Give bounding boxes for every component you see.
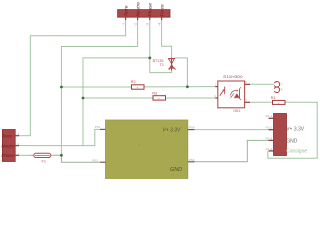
connector P2 right block [274, 114, 287, 156]
wire R1 loop to connector pin4 [268, 102, 317, 158]
op-to coupler OK1 box [218, 81, 245, 108]
wire fuse to junction and module PS2 [51, 155, 100, 162]
svg-text:+: + [158, 96, 160, 100]
svg-text:P2-3: P2-3 [266, 136, 273, 140]
svg-text:R3: R3 [152, 91, 157, 95]
opto light arrows [230, 90, 238, 98]
connector P2 pin stubs [269, 118, 274, 151]
svg-text:-4: -4 [157, 23, 161, 26]
svg-text:Neutre: Neutre [1, 144, 15, 149]
svg-text:+: + [137, 85, 139, 89]
opto triac symbol [234, 87, 241, 100]
svg-text:PS3: PS3 [189, 158, 195, 162]
wire GND module to connector [195, 140, 269, 161]
connector P2 pin labels [266, 114, 273, 151]
svg-text:-2: -2 [280, 87, 283, 91]
wire opto pin4 to R1 [250, 101, 273, 103]
wire R2 line [61, 86, 131, 88]
resistor R3 [153, 96, 166, 100]
connector X5 left block [2, 130, 15, 162]
svg-text:Phase: Phase [148, 3, 154, 17]
wire opto pin6 to pinhead [250, 83, 274, 85]
junction at R3 line [82, 97, 85, 100]
svg-text:PS1: PS1 [95, 125, 101, 129]
connector X1 top block [118, 10, 170, 18]
svg-text:-3: -3 [17, 132, 20, 136]
junction at pin3 triac [148, 57, 151, 60]
wire R3 right to opto pin2 [166, 97, 216, 99]
wire R3 line left [83, 97, 153, 99]
svg-text:R2: R2 [131, 80, 136, 84]
svg-text:OK1: OK1 [233, 109, 240, 113]
junction at R2 line [60, 86, 63, 89]
svg-text:Neutre: Neutre [136, 2, 142, 17]
pin numbers left connector [17, 132, 20, 156]
opto LED symbol [220, 87, 225, 96]
svg-text:Phase: Phase [1, 153, 14, 158]
svg-text:Terre: Terre [2, 134, 13, 139]
svg-text:V+ 3.3V: V+ 3.3V [286, 127, 305, 133]
module PS power supply block [106, 120, 188, 179]
svg-text:P2-2: P2-2 [266, 126, 273, 130]
svg-text:PS2: PS2 [92, 158, 98, 162]
svg-text:-2: -2 [133, 23, 137, 26]
fuse F1 [34, 153, 51, 157]
svg-text:R1: R1 [271, 96, 276, 100]
svg-text:P2-1: P2-1 [266, 114, 273, 118]
wire junction down to triac bottom [150, 58, 172, 73]
pinhead pin labels [280, 82, 283, 92]
wire Neutre line to module PS1 [30, 129, 100, 145]
triac T1 [168, 58, 175, 71]
resistor R1 [273, 100, 286, 104]
svg-text:V+ 3.3V: V+ 3.3V [162, 127, 181, 133]
wire left connector stub continuations [19, 136, 34, 156]
svg-text:-1: -1 [280, 82, 283, 86]
wire net pin4 to triac top [162, 20, 172, 67]
svg-text:PS4: PS4 [189, 126, 195, 130]
svg-text:>: > [138, 143, 140, 147]
svg-text:Force: Force [160, 4, 166, 17]
wire triac gate to R2 line [175, 58, 188, 87]
module pin stubs [100, 129, 195, 162]
wire Phase line fuse left [30, 154, 34, 156]
connector X1 pin stubs [126, 17, 162, 20]
svg-text:-1: -1 [121, 23, 125, 26]
svg-text:Terre: Terre [124, 5, 130, 16]
wire R2 right to opto pin1 [144, 86, 216, 88]
pin numbers top connector [121, 23, 161, 26]
resistor R2 [132, 85, 145, 89]
wire net pin3 down to junction [149, 20, 151, 58]
svg-text:GND: GND [170, 167, 182, 173]
pinhead X2 arcs [274, 82, 279, 93]
svg-text:S11H300: S11H300 [223, 75, 243, 79]
svg-text:P2-4: P2-4 [266, 147, 273, 151]
svg-text:GND: GND [286, 139, 298, 145]
svg-text:+: + [278, 101, 280, 105]
wire junction to left x=83 [83, 58, 150, 146]
svg-text:-1: -1 [17, 152, 20, 156]
svg-text:T1: T1 [160, 63, 164, 67]
svg-text:-3: -3 [146, 23, 150, 26]
connector X5 pin stubs [15, 136, 19, 156]
junction gate R2 [186, 85, 189, 88]
wire net pin2 to phase junction [61, 20, 137, 156]
wire net Terre: top connector pin1 down [30, 20, 125, 136]
module pin labels [92, 125, 195, 162]
svg-text:-2: -2 [17, 142, 20, 146]
opto pin stubs [215, 84, 250, 102]
junction at phase line [60, 154, 63, 157]
wire 3.3V module to connector [195, 129, 269, 131]
svg-text:F1: F1 [42, 159, 46, 163]
svg-text:Consigne: Consigne [286, 149, 307, 155]
opto pin numbers [214, 80, 247, 102]
